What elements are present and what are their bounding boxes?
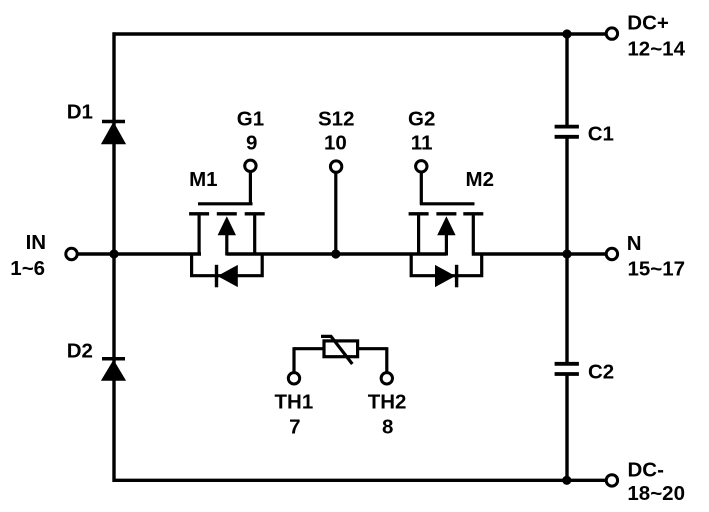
pin S12 lead	[334, 173, 337, 254]
svg-text:TH2: TH2	[368, 390, 407, 413]
svg-text:TH1: TH1	[275, 390, 314, 413]
svg-text:DC-: DC-	[628, 459, 664, 482]
MOSFET M2	[409, 172, 484, 276]
M1 body diode cathode bar	[215, 265, 218, 288]
svg-text:IN: IN	[26, 231, 46, 254]
M1 source stub	[198, 214, 201, 256]
wire M1 to M2 through S12 node	[227, 252, 447, 255]
svg-text:D2: D2	[67, 339, 93, 362]
svg-text:G2: G2	[408, 108, 435, 131]
M2 gate lead to pin G2	[420, 172, 423, 205]
diode D1	[101, 122, 126, 145]
capacitor C1	[555, 127, 579, 137]
pin G2	[416, 161, 427, 172]
pin TH1	[288, 373, 299, 384]
terminal IN	[66, 248, 77, 259]
junction node at IN	[109, 249, 118, 258]
M2 channel bar right	[463, 212, 483, 215]
M2 drain stub	[472, 214, 475, 256]
svg-text:S12: S12	[318, 108, 354, 131]
junction node DC+ rail	[562, 29, 571, 38]
M1 drain stub	[253, 214, 256, 256]
wire IN to M1 source	[78, 252, 201, 255]
TH2 lead vertical	[385, 347, 388, 372]
M1 body diode loop	[192, 253, 263, 276]
svg-text:11: 11	[411, 132, 433, 155]
wire left vertical	[112, 32, 115, 482]
TH1 lead vertical	[292, 347, 295, 372]
svg-text:1~6: 1~6	[10, 257, 45, 280]
M2 body diode loop	[411, 253, 482, 276]
M1 channel bar left	[189, 212, 209, 215]
svg-text:D1: D1	[67, 101, 93, 124]
M1 channel bar right	[245, 212, 265, 215]
svg-text:C2: C2	[588, 361, 614, 384]
diode D2	[101, 359, 126, 381]
thermistor TH	[294, 336, 387, 371]
wire right vertical upper (DC+ to C1)	[565, 34, 568, 127]
wire top rail DC+	[113, 32, 607, 35]
svg-text:8: 8	[382, 416, 393, 439]
svg-text:M1: M1	[189, 168, 217, 191]
terminal DC-	[606, 475, 617, 486]
M1 gate bar	[198, 202, 253, 205]
junction node S12 on mid wire	[331, 249, 340, 258]
wire right vertical middle (C1 to C2)	[565, 137, 568, 364]
svg-text:C1: C1	[588, 123, 614, 146]
svg-text:15~17: 15~17	[628, 257, 686, 280]
capacitor C2	[555, 364, 579, 374]
pin G1	[245, 160, 256, 171]
wire right vertical lower (C2 to DC-)	[565, 374, 568, 480]
TH2 lead horizontal	[357, 347, 387, 350]
M2 body arrow head	[437, 216, 455, 235]
M1 body arrow tail	[225, 233, 228, 256]
junction node DC- rail	[562, 476, 571, 485]
svg-text:7: 7	[289, 416, 300, 439]
terminal DC+	[606, 28, 617, 39]
M1 body arrow head	[218, 216, 236, 235]
M2 gate bar	[420, 202, 475, 205]
pin S12	[330, 161, 341, 172]
M2 body diode triangle	[435, 265, 455, 287]
svg-text:N: N	[627, 232, 642, 255]
M1 channel bar middle	[217, 212, 237, 215]
M2 source stub	[417, 214, 420, 256]
M2 body arrow tail	[445, 233, 448, 256]
terminal N	[606, 248, 617, 259]
M1 body diode triangle	[217, 265, 237, 287]
svg-text:18~20: 18~20	[627, 482, 685, 505]
thermistor diagonal stroke	[321, 336, 352, 364]
M1 gate lead to pin G1	[249, 172, 252, 205]
TH1 lead horizontal	[294, 347, 325, 350]
junction node N rail	[562, 249, 571, 258]
svg-text:12~14: 12~14	[627, 37, 685, 60]
M2 channel bar left	[409, 212, 429, 215]
svg-text:G1: G1	[237, 108, 264, 131]
wire M2 to N	[472, 252, 607, 255]
M2 channel bar middle	[436, 212, 456, 215]
svg-text:M2: M2	[466, 168, 494, 191]
svg-text:9: 9	[246, 132, 257, 155]
thermistor body	[324, 341, 358, 357]
wire bottom rail DC-	[113, 479, 607, 482]
svg-text:DC+: DC+	[627, 12, 669, 35]
pin TH2	[381, 373, 392, 384]
MOSFET M1	[189, 172, 265, 276]
svg-text:10: 10	[324, 132, 347, 155]
M2 body diode cathode bar	[455, 265, 458, 288]
